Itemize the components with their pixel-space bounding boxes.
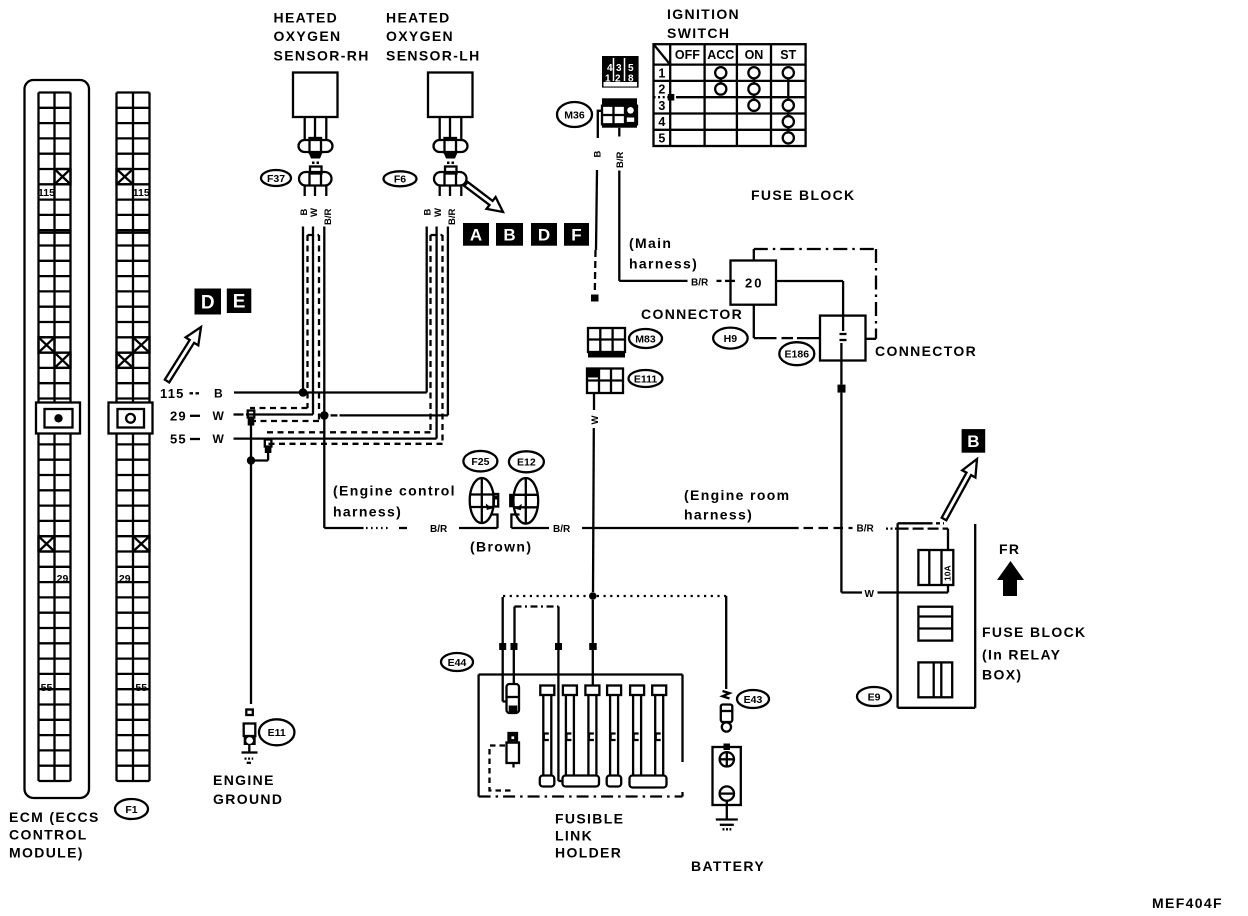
sensor LH harness connector xyxy=(434,167,467,186)
battery wire crimp xyxy=(723,691,730,699)
svg-text:E9: E9 xyxy=(868,691,881,703)
LH shield dashes xyxy=(267,235,443,444)
connector label M83 xyxy=(629,329,662,348)
connector label E9 xyxy=(857,687,891,706)
E12 foot xyxy=(511,515,519,529)
relay box text xyxy=(982,624,1087,683)
sensor RH gland plug xyxy=(299,138,333,159)
wire RH sensor B xyxy=(302,227,304,393)
svg-text:W: W xyxy=(865,589,875,600)
ignition switch contacts xyxy=(715,67,794,143)
connector label F6 xyxy=(384,171,417,186)
svg-text:10A: 10A xyxy=(943,565,953,581)
dashed bracket xyxy=(490,746,515,791)
connector block E111 xyxy=(587,369,623,394)
engine ground text xyxy=(213,772,283,807)
svg-text:3: 3 xyxy=(616,63,622,74)
svg-text:W: W xyxy=(309,208,320,217)
svg-text:SWITCH: SWITCH xyxy=(667,25,730,41)
fusible link wire 1 xyxy=(502,597,504,643)
svg-text:B: B xyxy=(299,209,310,216)
svg-text:B: B xyxy=(214,387,223,401)
connector label F37 xyxy=(261,170,291,186)
fuse 10A xyxy=(918,550,953,585)
svg-text:5: 5 xyxy=(628,63,634,74)
wire ECM pin 55 (W) xyxy=(234,437,437,439)
svg-text:HOLDER: HOLDER xyxy=(555,845,622,861)
connector block M36 xyxy=(602,98,637,127)
svg-text:BOX): BOX) xyxy=(982,667,1022,683)
svg-text:ENGINE: ENGINE xyxy=(213,772,275,788)
svg-text:B/R: B/R xyxy=(323,209,334,226)
svg-text:W: W xyxy=(590,416,601,425)
svg-text:E43: E43 xyxy=(744,694,763,706)
wire LH sensor W xyxy=(435,227,437,439)
sensor RH leads xyxy=(305,117,327,140)
view box B xyxy=(962,429,986,453)
wires into holder xyxy=(503,650,593,781)
svg-text:E44: E44 xyxy=(448,657,467,669)
svg-text:D: D xyxy=(538,225,550,244)
svg-text:ACC: ACC xyxy=(707,48,734,62)
ECM module outline box xyxy=(25,80,90,798)
svg-text:55: 55 xyxy=(135,682,147,694)
svg-text:F1: F1 xyxy=(125,804,137,816)
sensor LH connector dots xyxy=(447,162,454,165)
connector label E186 xyxy=(779,342,814,365)
svg-text:BATTERY: BATTERY xyxy=(691,858,765,874)
svg-text:B: B xyxy=(593,151,604,158)
fuse 20 box xyxy=(731,261,777,305)
connector label F25 xyxy=(463,451,497,472)
heated oxygen sensor RH body xyxy=(293,73,338,118)
svg-text:55: 55 xyxy=(170,432,187,447)
shield drain wires xyxy=(251,424,268,461)
sensor LH gland plug xyxy=(434,138,468,159)
wire LH sensor B xyxy=(426,227,428,393)
svg-text:SENSOR-RH: SENSOR-RH xyxy=(274,48,370,64)
view box E xyxy=(227,289,252,314)
svg-text:harness): harness) xyxy=(629,256,698,272)
F25 foot xyxy=(492,515,498,529)
relay block fuse 2 xyxy=(918,607,952,641)
engine ground terminal E11 xyxy=(244,710,256,752)
heated oxygen sensor LH body xyxy=(428,73,473,118)
wire B/R to fuse 20 xyxy=(619,278,735,289)
wire B/R engine room harness xyxy=(511,524,897,535)
holder terminal 2 xyxy=(507,733,520,768)
svg-text:FUSE BLOCK: FUSE BLOCK xyxy=(751,187,856,203)
sensor RH connector dots xyxy=(312,162,319,165)
svg-text:SENSOR-LH: SENSOR-LH xyxy=(386,48,481,64)
wire 4 (W) down to holder xyxy=(592,600,594,643)
harness route dotted line xyxy=(503,595,726,597)
B/R link RH to LH xyxy=(331,414,448,416)
svg-text:3: 3 xyxy=(658,99,665,113)
wire W down from E186 xyxy=(840,393,842,593)
ground symbol xyxy=(242,753,258,763)
svg-text:harness): harness) xyxy=(333,504,402,520)
battery box xyxy=(713,747,741,805)
svg-text:W: W xyxy=(213,409,225,423)
ECM connector grid strip 1 xyxy=(38,93,70,782)
svg-text:F37: F37 xyxy=(267,173,285,185)
connector label H9 xyxy=(713,328,748,349)
svg-text:OXYGEN: OXYGEN xyxy=(386,28,454,44)
wire LH sensor B/R xyxy=(447,227,449,416)
fusible links x6 xyxy=(540,686,666,776)
svg-text:FUSIBLE: FUSIBLE xyxy=(555,811,624,827)
svg-text:B: B xyxy=(423,209,434,216)
connector label E44 xyxy=(441,653,473,671)
junction dot drain xyxy=(247,456,255,464)
svg-text:MODULE): MODULE) xyxy=(9,845,84,861)
svg-text:M36: M36 xyxy=(564,109,585,121)
svg-text:E11: E11 xyxy=(268,727,286,739)
connector label M36 xyxy=(557,102,592,127)
sensor LH wire labels B W B/R xyxy=(423,208,458,225)
ignition switch text xyxy=(667,6,740,41)
callout arrow to views A,B,D,F xyxy=(464,182,503,212)
fusible link holder text xyxy=(555,811,624,861)
svg-text:(Brown): (Brown) xyxy=(470,539,532,555)
svg-text:29: 29 xyxy=(57,573,69,585)
svg-text:E12: E12 xyxy=(517,457,536,469)
svg-text:55: 55 xyxy=(41,682,53,694)
junction dot row 115 / RH B xyxy=(299,388,308,397)
svg-text:4: 4 xyxy=(658,115,665,129)
svg-text:B: B xyxy=(967,432,979,451)
wire B/R into F25 xyxy=(459,527,498,529)
view box F xyxy=(564,223,589,246)
junction square below E186 xyxy=(838,385,846,393)
svg-text:D: D xyxy=(201,292,215,313)
connector box E186 xyxy=(820,316,866,385)
connector block M83 xyxy=(588,328,625,358)
B/R wire to heater supply (engine control harness) xyxy=(324,527,407,529)
wire end squares xyxy=(499,643,597,650)
ECM strip 2 mounting hole box xyxy=(109,403,153,434)
engine ground wire xyxy=(250,461,252,705)
svg-text:W: W xyxy=(213,432,225,446)
callout arrow to view B xyxy=(942,459,977,520)
shield drain terminal 1 xyxy=(248,411,255,426)
svg-text:FUSE BLOCK: FUSE BLOCK xyxy=(982,624,1087,640)
ECM connector grid strip 2 (F1) xyxy=(117,93,150,782)
view box D xyxy=(195,289,222,315)
junction dot harness/W wire xyxy=(589,592,597,600)
connector E12 face xyxy=(509,478,538,524)
svg-text:(In RELAY: (In RELAY xyxy=(982,647,1061,663)
svg-text:29: 29 xyxy=(119,573,131,585)
svg-text:(Main: (Main xyxy=(629,235,672,251)
svg-text:29: 29 xyxy=(170,409,187,424)
svg-text:F: F xyxy=(571,225,581,244)
wire B/R inside relay block xyxy=(898,529,948,550)
sensor LH connector pins xyxy=(440,186,462,197)
svg-text:B/R: B/R xyxy=(691,278,709,289)
battery wire xyxy=(725,596,727,689)
battery terminal connector xyxy=(721,705,733,732)
battery minus terminal xyxy=(720,786,734,800)
junction dot B/R xyxy=(320,411,329,420)
fuse 20 right lead to E186 xyxy=(776,281,843,316)
svg-text:B/R: B/R xyxy=(615,152,626,169)
svg-text:E186: E186 xyxy=(785,348,810,360)
svg-text:B/R: B/R xyxy=(447,209,458,226)
sensor RH connector pins xyxy=(305,186,327,197)
fuse 20 bottom lead to H9 xyxy=(754,305,820,338)
svg-text:IGNITION: IGNITION xyxy=(667,6,740,22)
connector label E11 xyxy=(259,719,295,745)
svg-text:ST: ST xyxy=(780,48,796,62)
ECM pin row labels xyxy=(160,386,225,447)
FR direction arrow xyxy=(997,541,1024,596)
svg-text:B/R: B/R xyxy=(857,524,875,535)
svg-text:CONNECTOR: CONNECTOR xyxy=(641,306,743,322)
wire RH sensor B/R xyxy=(323,227,325,529)
ECM label text xyxy=(9,809,100,861)
svg-text:LINK: LINK xyxy=(555,828,593,844)
view box B xyxy=(496,223,523,246)
svg-text:ECM (ECCS: ECM (ECCS xyxy=(9,809,100,825)
ECM strip 1 mounting hole box xyxy=(36,403,80,434)
wire M36 B/R xyxy=(615,128,626,281)
wire W below E111 xyxy=(590,393,601,592)
svg-text:GROUND: GROUND xyxy=(213,791,283,807)
svg-text:B/R: B/R xyxy=(553,524,571,535)
relay block fuse 3 xyxy=(918,662,952,697)
svg-text:H9: H9 xyxy=(724,333,738,345)
svg-text:B/R: B/R xyxy=(430,524,448,535)
wire ECM pin 29 (W) xyxy=(234,413,314,415)
wire RH sensor W xyxy=(312,227,314,415)
svg-text:HEATED: HEATED xyxy=(386,10,451,26)
sensor LH text xyxy=(386,10,481,64)
svg-text:FR: FR xyxy=(999,541,1020,557)
svg-text:OXYGEN: OXYGEN xyxy=(274,28,342,44)
dash-dot loop over fuse block xyxy=(754,249,876,339)
shield drain terminal 2 xyxy=(265,440,272,454)
battery top mark xyxy=(724,744,731,751)
svg-text:F6: F6 xyxy=(394,174,406,186)
svg-text:A: A xyxy=(470,225,482,244)
view box A xyxy=(463,223,489,246)
svg-text:115: 115 xyxy=(160,386,185,401)
svg-text:MEF404F: MEF404F xyxy=(1152,895,1223,911)
harness text (Engine control harness) xyxy=(333,483,456,520)
svg-text:ON: ON xyxy=(745,48,764,62)
svg-text:5: 5 xyxy=(658,131,665,145)
sensor LH leads xyxy=(440,117,462,140)
connector label E12 xyxy=(509,451,544,472)
svg-text:115: 115 xyxy=(38,187,55,199)
svg-text:115: 115 xyxy=(133,187,150,199)
battery plus terminal xyxy=(720,752,734,766)
svg-text:CONNECTOR: CONNECTOR xyxy=(875,343,977,359)
svg-text:1: 1 xyxy=(658,66,665,80)
svg-text:OFF: OFF xyxy=(675,48,700,62)
holder terminal 1 xyxy=(503,684,519,714)
battery ground xyxy=(716,801,738,830)
svg-text:CONTROL: CONTROL xyxy=(9,827,88,843)
sensor RH text xyxy=(274,10,370,64)
svg-text:harness): harness) xyxy=(684,507,753,523)
svg-text:E111: E111 xyxy=(634,373,658,385)
view box D xyxy=(531,223,557,246)
harness text (Engine room harness) xyxy=(684,487,790,523)
wire ECM pin 115 (B) xyxy=(234,391,427,393)
callout arrow to views D,E xyxy=(165,327,201,382)
fuse 20 top lead xyxy=(753,249,755,261)
svg-text:4: 4 xyxy=(607,63,613,74)
wire M36 B xyxy=(593,111,604,292)
fusible link holder box xyxy=(479,675,683,797)
ignition switch table xyxy=(654,44,806,146)
svg-text:M83: M83 xyxy=(635,333,656,345)
sensor RH harness connector xyxy=(299,167,332,186)
svg-text:HEATED: HEATED xyxy=(274,10,339,26)
link feet xyxy=(540,776,667,788)
connector label E43 xyxy=(737,690,769,708)
connector label E111 xyxy=(629,370,663,387)
wire W into relay block xyxy=(841,585,948,600)
dashed connector box above holder xyxy=(515,607,559,644)
connector F25 face xyxy=(470,478,499,523)
sensor RH wire labels B W B/R xyxy=(299,208,334,225)
svg-text:W: W xyxy=(433,208,444,217)
ignition switch pin number block xyxy=(602,56,639,88)
harness text (Main harness) xyxy=(629,235,698,272)
svg-text:E: E xyxy=(233,292,246,313)
svg-text:20: 20 xyxy=(745,276,763,291)
svg-text:(Engine room: (Engine room xyxy=(684,487,790,503)
svg-text:B: B xyxy=(503,225,515,244)
svg-text:(Engine control: (Engine control xyxy=(333,483,456,499)
connector label F1 xyxy=(115,799,148,819)
svg-text:F25: F25 xyxy=(471,456,489,468)
svg-text:2: 2 xyxy=(658,83,665,97)
junction square M36 B wire xyxy=(591,295,599,302)
relay box fuse block outline xyxy=(898,523,976,708)
RH shield dashes xyxy=(250,235,319,421)
